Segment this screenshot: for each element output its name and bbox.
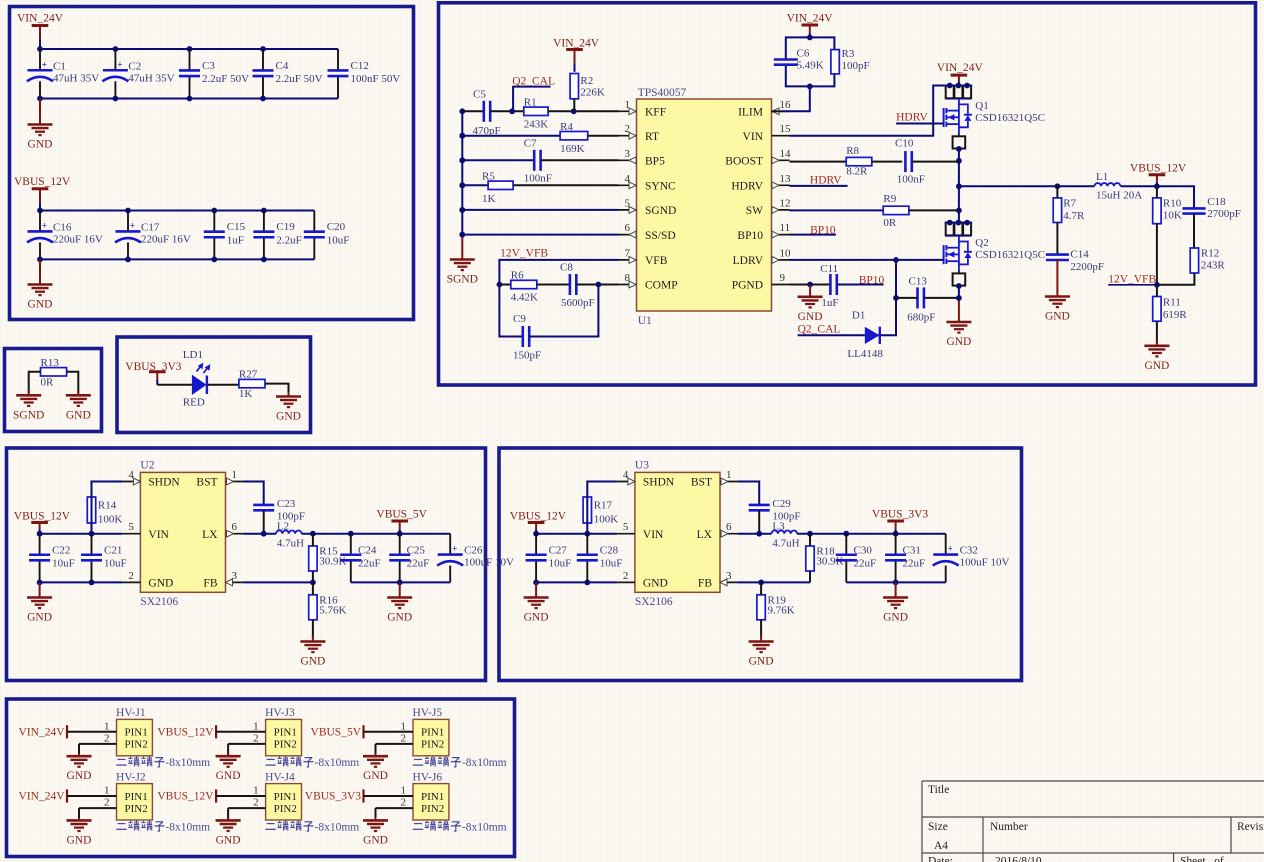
svg-text:R11: R11 xyxy=(1163,297,1181,309)
junction xyxy=(260,46,266,52)
transistor Q1 CSD16321Q5C xyxy=(944,83,1045,152)
junction xyxy=(956,158,962,164)
led LD1 RED xyxy=(183,349,210,409)
junction xyxy=(261,208,267,214)
wire R19 top xyxy=(760,582,762,594)
svg-text:BST: BST xyxy=(196,477,217,489)
net label HDRV xyxy=(810,175,842,187)
wire L1 to VBUS xyxy=(1121,186,1195,208)
ground GND xyxy=(216,818,241,847)
ground GND xyxy=(27,582,52,623)
wire net to pin1 xyxy=(216,795,266,797)
wire R5 to pin4 xyxy=(513,184,618,186)
wire row3 left xyxy=(462,159,534,161)
svg-text:47uH 35V: 47uH 35V xyxy=(128,72,174,84)
svg-text:TPS40057: TPS40057 xyxy=(638,87,687,99)
ground GND xyxy=(276,392,301,423)
svg-text:C11: C11 xyxy=(820,263,838,275)
svg-text:CSD16321Q5C: CSD16321Q5C xyxy=(975,249,1045,261)
capacitor C15 xyxy=(204,211,246,260)
part label terminal 8x10mm xyxy=(116,756,210,769)
resistor R19 xyxy=(757,595,795,620)
svg-text:220uF 16V: 220uF 16V xyxy=(141,234,191,246)
svg-text:PIN1: PIN1 xyxy=(421,791,444,803)
svg-text:C1: C1 xyxy=(53,60,66,72)
svg-text:5.76K: 5.76K xyxy=(319,605,346,617)
wire R19 bottom xyxy=(760,620,762,638)
svg-text:22uF: 22uF xyxy=(903,557,926,569)
resistor R8 xyxy=(846,145,872,178)
junction xyxy=(37,96,43,102)
svg-text:VBUS_3V3: VBUS_3V3 xyxy=(872,509,928,521)
svg-text:R6: R6 xyxy=(511,270,524,282)
capacitor C25 xyxy=(389,534,429,583)
svg-text:GND: GND xyxy=(1144,360,1169,372)
wire gnd drop xyxy=(227,808,229,819)
junction xyxy=(533,531,539,537)
resistor R1 xyxy=(524,97,549,131)
svg-text:+: + xyxy=(42,59,47,69)
svg-text:SX2106: SX2106 xyxy=(635,596,673,608)
svg-text:C28: C28 xyxy=(600,544,619,556)
wire C5 to R1 xyxy=(490,110,524,112)
svg-text:HV-J1: HV-J1 xyxy=(116,707,146,719)
svg-text:SS/SD: SS/SD xyxy=(645,230,676,242)
wire row5 xyxy=(462,209,618,211)
svg-text:PIN1: PIN1 xyxy=(421,727,444,739)
svg-text:L1: L1 xyxy=(1096,171,1108,183)
junction xyxy=(807,282,813,288)
svg-text:KFF: KFF xyxy=(645,107,666,119)
wire R10 top xyxy=(1156,186,1158,198)
svg-text:100uF 10V: 100uF 10V xyxy=(464,557,514,569)
svg-text:1: 1 xyxy=(232,469,238,481)
svg-text:1: 1 xyxy=(253,720,259,732)
net label VBUS_12V xyxy=(157,789,216,802)
svg-text:VBUS_5V: VBUS_5V xyxy=(376,509,427,521)
wire net to pin1 xyxy=(216,731,266,733)
wire cap gnd rail U2 xyxy=(351,581,450,583)
junction xyxy=(807,84,813,90)
svg-text:PIN1: PIN1 xyxy=(125,727,148,739)
wire Q2 src down xyxy=(958,286,960,298)
ic U1 TPS40057 xyxy=(619,87,792,327)
transistor Q2 CSD16321Q5C xyxy=(944,220,1045,289)
net label VBUS_12V xyxy=(157,725,216,738)
capacitor C14 xyxy=(1046,249,1104,273)
svg-text:13: 13 xyxy=(780,173,792,185)
wire R11 bottom xyxy=(1156,321,1158,343)
junction xyxy=(211,208,217,214)
svg-text:SGND: SGND xyxy=(645,205,676,217)
junction xyxy=(893,531,899,537)
svg-text:1: 1 xyxy=(104,785,110,797)
power port VBUS_12V xyxy=(14,176,71,211)
svg-text:C29: C29 xyxy=(772,498,791,510)
svg-text:C8: C8 xyxy=(560,262,573,274)
wire net to pin1 xyxy=(67,795,117,797)
svg-text:VBUS_12V: VBUS_12V xyxy=(157,726,214,738)
wire R15 bottom xyxy=(312,571,314,582)
ground GND xyxy=(1144,340,1169,372)
ground GND xyxy=(300,635,325,668)
svg-text:R12: R12 xyxy=(1201,248,1219,260)
wire GND rail row2 xyxy=(40,258,314,260)
wire to LED anode xyxy=(157,384,192,386)
svg-text:R9: R9 xyxy=(883,193,896,205)
junction xyxy=(893,257,899,263)
svg-text:+: + xyxy=(42,220,47,230)
net label 12V_VFB xyxy=(500,248,548,260)
capacitor C1 xyxy=(27,49,99,99)
svg-text:1uF: 1uF xyxy=(227,234,244,246)
wire R18 top xyxy=(809,534,811,546)
wire VBUS_12V rail xyxy=(40,210,314,212)
ground GND xyxy=(798,285,823,323)
resistor R2 xyxy=(570,74,605,99)
svg-text:GND: GND xyxy=(387,612,412,624)
svg-text:GND: GND xyxy=(363,834,388,846)
junction xyxy=(459,133,465,139)
svg-text:+: + xyxy=(117,59,122,69)
svg-text:-8x10mm: -8x10mm xyxy=(165,821,210,833)
junction xyxy=(459,232,465,238)
svg-text:C22: C22 xyxy=(52,544,70,556)
capacitor C17 xyxy=(115,211,191,260)
capacitor C6 xyxy=(774,48,824,72)
svg-text:C10: C10 xyxy=(895,137,914,149)
junction xyxy=(260,96,266,102)
wire pin16 stub xyxy=(772,110,783,112)
junction xyxy=(261,257,267,263)
wire C7 to pin3 xyxy=(541,159,619,161)
svg-text:Q2_CAL: Q2_CAL xyxy=(798,324,841,336)
connector HV-J6 xyxy=(401,771,449,820)
svg-text:100uF 10V: 100uF 10V xyxy=(960,557,1010,569)
wire SW vertical xyxy=(958,149,960,223)
diode D1 LL4148 xyxy=(847,309,883,360)
svg-text:R5: R5 xyxy=(482,171,495,183)
svg-text:LX: LX xyxy=(202,529,218,541)
capacitor C21 xyxy=(81,534,127,583)
junction xyxy=(113,46,119,52)
svg-text:PIN1: PIN1 xyxy=(274,727,297,739)
svg-text:FB: FB xyxy=(698,578,712,590)
resistor R3 xyxy=(831,48,870,74)
svg-text:PIN2: PIN2 xyxy=(125,803,148,815)
svg-text:R27: R27 xyxy=(239,369,258,381)
svg-text:R4: R4 xyxy=(560,121,573,133)
svg-text:10uF: 10uF xyxy=(549,557,572,569)
svg-text:15: 15 xyxy=(780,123,792,135)
svg-text:4.7uH: 4.7uH xyxy=(772,538,799,550)
svg-text:ILIM: ILIM xyxy=(738,107,763,119)
svg-text:R10: R10 xyxy=(1163,198,1182,210)
wire C8 to pin8 xyxy=(576,284,618,286)
svg-text:0R: 0R xyxy=(883,217,897,229)
svg-text:PIN2: PIN2 xyxy=(421,803,444,815)
junction xyxy=(584,580,590,586)
svg-text:22uF: 22uF xyxy=(854,557,877,569)
svg-text:GND: GND xyxy=(27,612,52,624)
svg-text:SYNC: SYNC xyxy=(645,181,676,193)
wire HDRV stub xyxy=(790,185,848,187)
svg-text:6: 6 xyxy=(625,222,631,234)
svg-text:VIN_24V: VIN_24V xyxy=(937,62,984,74)
junction xyxy=(893,580,899,586)
svg-text:SX2106: SX2106 xyxy=(140,596,178,608)
svg-text:VBUS_3V3: VBUS_3V3 xyxy=(305,791,361,803)
wire R6 to C8 xyxy=(537,284,570,286)
resistor R12 xyxy=(1190,248,1225,274)
svg-text:VIN: VIN xyxy=(148,529,169,541)
svg-text:VIN_24V: VIN_24V xyxy=(553,38,600,50)
capacitor C20 xyxy=(304,211,350,260)
svg-text:243K: 243K xyxy=(524,119,549,131)
svg-text:1: 1 xyxy=(401,785,407,797)
svg-text:VIN: VIN xyxy=(643,529,664,541)
svg-text:GND: GND xyxy=(66,409,91,421)
svg-text:2700pF: 2700pF xyxy=(1207,208,1241,220)
sheet symbol connectors box xyxy=(7,699,515,857)
wire C9 to COMP xyxy=(529,285,598,337)
svg-text:0R: 0R xyxy=(41,377,55,389)
connector HV-J4 xyxy=(253,771,301,820)
resistor R13 xyxy=(41,357,67,389)
svg-text:2.2uF: 2.2uF xyxy=(276,234,301,246)
svg-text:LD1: LD1 xyxy=(183,349,203,361)
svg-text:VIN_24V: VIN_24V xyxy=(19,726,66,738)
ground GND xyxy=(363,818,388,847)
junction xyxy=(187,46,193,52)
inductor L1 xyxy=(1095,171,1143,202)
svg-text:C20: C20 xyxy=(327,221,346,233)
svg-text:1: 1 xyxy=(104,720,110,732)
svg-text:100K: 100K xyxy=(98,514,123,526)
wire R13 right xyxy=(67,372,79,394)
svg-text:GND: GND xyxy=(749,656,774,668)
svg-text:100pF: 100pF xyxy=(842,60,870,72)
svg-text:22uF: 22uF xyxy=(407,557,430,569)
wire R27 to gnd xyxy=(265,384,289,395)
junction xyxy=(596,282,602,288)
svg-text:47uH 35V: 47uH 35V xyxy=(53,72,99,84)
svg-text:5600pF: 5600pF xyxy=(561,297,595,309)
wire gnd drop xyxy=(227,744,229,755)
junction xyxy=(893,295,899,301)
junction xyxy=(348,531,354,537)
wire R1 to pin1 xyxy=(548,110,618,112)
svg-text:GND: GND xyxy=(28,299,53,311)
svg-text:VIN_24V: VIN_24V xyxy=(17,13,64,25)
svg-text:SW: SW xyxy=(746,205,763,217)
svg-text:GND: GND xyxy=(67,770,92,782)
junction xyxy=(211,257,217,263)
svg-text:9.76K: 9.76K xyxy=(768,605,795,617)
svg-text:10uF: 10uF xyxy=(327,234,350,246)
svg-text:C21: C21 xyxy=(104,544,122,556)
wire R18 bottom xyxy=(809,571,811,582)
wire R7 to C14 xyxy=(1056,223,1058,255)
svg-text:GND: GND xyxy=(946,336,971,348)
wire gnd to pin2 xyxy=(228,807,266,809)
wire LX out rail U3 xyxy=(797,533,946,535)
capacitor C4 xyxy=(253,49,323,99)
power port VBUS_12V xyxy=(1130,163,1187,187)
sheet symbol U2 buck box xyxy=(7,448,486,681)
junction xyxy=(956,183,962,189)
ground GND xyxy=(67,818,92,847)
svg-text:6: 6 xyxy=(232,521,238,533)
svg-text:R13: R13 xyxy=(41,357,60,369)
svg-text:2: 2 xyxy=(253,797,259,809)
junction xyxy=(956,208,962,214)
svg-text:C31: C31 xyxy=(903,544,921,556)
resistor R5 xyxy=(482,171,513,206)
junction xyxy=(37,580,43,586)
svg-text:C14: C14 xyxy=(1070,249,1089,261)
svg-text:169K: 169K xyxy=(560,143,585,155)
wire R9 to SW node xyxy=(909,209,959,211)
junction xyxy=(261,531,267,537)
svg-text:HDRV: HDRV xyxy=(810,175,842,187)
svg-text:12V_VFB: 12V_VFB xyxy=(500,248,548,260)
resistor R18 xyxy=(806,546,844,572)
svg-text:Size: Size xyxy=(928,821,948,833)
svg-text:9: 9 xyxy=(780,272,786,284)
power port VIN_24V xyxy=(937,62,984,86)
junction xyxy=(1154,183,1160,189)
svg-text:100nF: 100nF xyxy=(897,174,925,186)
wire VIN rail U2 xyxy=(40,533,123,535)
ground GND xyxy=(387,582,412,623)
part label terminal 8x10mm xyxy=(413,756,507,769)
title block xyxy=(922,781,1264,862)
junction xyxy=(310,531,316,537)
power port VBUS_5V xyxy=(376,509,427,534)
junction xyxy=(459,157,465,163)
capacitor C18 xyxy=(1182,196,1241,220)
wire C10 to SW xyxy=(912,161,959,163)
svg-text:RT: RT xyxy=(645,131,659,143)
svg-text:5: 5 xyxy=(128,521,134,533)
svg-text:U1: U1 xyxy=(638,315,652,327)
svg-text:1uF: 1uF xyxy=(821,297,838,309)
part label terminal 8x10mm xyxy=(265,756,359,769)
svg-text:Sheet of: Sheet of xyxy=(1180,856,1224,862)
svg-text:VIN_24V: VIN_24V xyxy=(787,13,834,25)
svg-text:C32: C32 xyxy=(960,545,978,557)
net label BP10 xyxy=(810,225,836,237)
svg-text:BST: BST xyxy=(691,477,712,489)
connector HV-J5 xyxy=(401,707,449,756)
wire VIN to drain rail xyxy=(790,86,945,136)
svg-text:14: 14 xyxy=(780,148,792,160)
ic U2 SX2106 xyxy=(122,460,243,608)
ic U3 SX2106 xyxy=(617,460,738,608)
resistor R6 xyxy=(511,270,538,304)
wire gnd to pin2 xyxy=(376,743,414,745)
svg-text:100K: 100K xyxy=(594,514,619,526)
wire R12 to VFB row xyxy=(1157,273,1195,285)
svg-text:GND: GND xyxy=(216,834,241,846)
wire row4 left xyxy=(462,184,488,186)
svg-text:VIN: VIN xyxy=(743,131,764,143)
capacitor C31 xyxy=(885,534,925,583)
svg-text:CSD16321Q5C: CSD16321Q5C xyxy=(975,112,1045,124)
wire gnd drop xyxy=(78,808,80,819)
svg-text:R7: R7 xyxy=(1063,198,1076,210)
svg-text:R1: R1 xyxy=(524,97,537,109)
power port VIN_24V xyxy=(17,13,64,50)
svg-text:GND: GND xyxy=(216,770,241,782)
svg-text:680pF: 680pF xyxy=(907,312,935,324)
resistor R27 xyxy=(239,369,265,401)
capacitor C19 xyxy=(253,211,301,260)
capacitor C26 xyxy=(437,534,514,583)
capacitor C11 xyxy=(820,263,838,309)
svg-text:2: 2 xyxy=(104,732,110,744)
wire row6 xyxy=(462,234,618,236)
svg-text:C16: C16 xyxy=(53,221,72,233)
inductor L3 xyxy=(772,521,800,550)
capacitor C5 xyxy=(473,89,501,138)
svg-text:10uF: 10uF xyxy=(104,557,127,569)
svg-text:SGND: SGND xyxy=(13,409,44,421)
svg-text:HV-J2: HV-J2 xyxy=(116,771,146,783)
wire PGND row xyxy=(790,284,831,286)
wire BOOST to R8 xyxy=(790,161,847,163)
resistor R16 xyxy=(309,595,347,620)
ground GND xyxy=(946,298,971,348)
ground SGND xyxy=(447,235,478,285)
svg-text:1: 1 xyxy=(253,785,259,797)
svg-text:L3: L3 xyxy=(772,521,785,533)
wire C29 to LX xyxy=(758,510,760,533)
svg-text:Revision: Revision xyxy=(1237,821,1264,833)
wire BP10 stub xyxy=(790,234,836,236)
wire LED to R27 xyxy=(207,384,239,386)
capacitor C29 xyxy=(749,498,801,523)
wire R11 top xyxy=(1156,285,1158,297)
wire HDRV to gate xyxy=(896,123,944,125)
svg-text:2: 2 xyxy=(128,570,134,582)
wire vfb to R6 xyxy=(499,284,510,286)
resistor R7 xyxy=(1053,198,1085,223)
svg-text:11: 11 xyxy=(780,222,791,234)
svg-text:2: 2 xyxy=(104,797,110,809)
junction xyxy=(459,182,465,188)
capacitor C10 xyxy=(895,137,925,185)
power port VBUS_12V xyxy=(510,511,567,534)
wire Q2_CAL wire xyxy=(798,334,865,336)
svg-text:GND: GND xyxy=(300,656,325,668)
svg-text:SHDN: SHDN xyxy=(148,477,180,489)
power port VIN_24V xyxy=(553,38,600,72)
net label VBUS_3V3 xyxy=(305,789,364,802)
svg-text:GND: GND xyxy=(67,834,92,846)
capacitor C9 xyxy=(513,313,541,362)
resistor R10 xyxy=(1153,198,1182,224)
capacitor C7 xyxy=(524,138,552,185)
net label VIN_24V xyxy=(19,789,68,802)
junction xyxy=(533,580,539,586)
svg-text:PIN2: PIN2 xyxy=(274,803,297,815)
svg-text:220uF 16V: 220uF 16V xyxy=(53,234,103,246)
svg-text:2200pF: 2200pF xyxy=(1070,261,1104,273)
wire SW to R9 xyxy=(790,209,884,211)
svg-text:22uF: 22uF xyxy=(358,557,381,569)
